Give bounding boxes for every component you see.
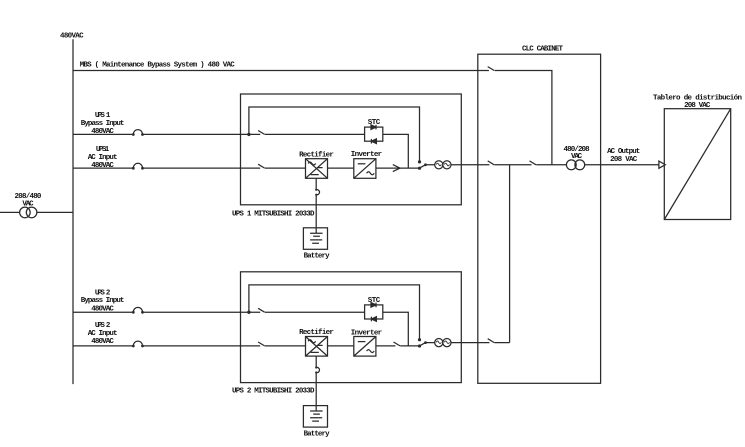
svg-text:480VAC: 480VAC [91,128,114,136]
svg-text:480VAC: 480VAC [60,33,84,41]
svg-text:208 VAC: 208 VAC [610,156,638,164]
svg-text:UPS1: UPS1 [96,146,110,154]
svg-text:480VAC: 480VAC [91,338,114,346]
svg-text:208/480: 208/480 [15,193,42,201]
svg-text:Rectifier: Rectifier [299,329,334,337]
svg-text:VAC: VAC [571,153,583,161]
svg-text:UPS 2: UPS 2 [95,322,111,330]
svg-text:AC Output: AC Output [607,148,640,156]
svg-text:208 VAC: 208 VAC [684,102,711,110]
svg-text:CLC CABINET: CLC CABINET [522,46,563,54]
svg-text:480VAC: 480VAC [91,305,114,313]
svg-text:STC: STC [368,119,381,127]
svg-text:UPS 2 MITSUBISHI 2033D: UPS 2 MITSUBISHI 2033D [232,387,315,395]
svg-text:AC Input: AC Input [88,154,118,162]
svg-text:Battery: Battery [304,252,330,260]
svg-text:480VAC: 480VAC [91,162,114,170]
svg-text:Inverter: Inverter [351,329,382,337]
svg-text:STC: STC [368,297,381,305]
svg-text:UPS 1: UPS 1 [95,112,111,120]
svg-text:MBS ( Maintenance Bypass Syste: MBS ( Maintenance Bypass System ) 480 VA… [80,61,236,69]
svg-text:UPS 2: UPS 2 [95,289,111,297]
svg-text:Bypass Input: Bypass Input [81,120,125,128]
svg-text:VAC: VAC [22,201,34,209]
svg-text:Rectifier: Rectifier [299,151,334,159]
svg-text:AC Input: AC Input [88,330,118,338]
svg-text:Bypass Input: Bypass Input [81,297,125,305]
svg-text:Battery: Battery [304,430,330,438]
svg-text:Inverter: Inverter [351,151,382,159]
svg-text:UPS 1 MITSUBISHI 2033D: UPS 1 MITSUBISHI 2033D [232,211,315,219]
